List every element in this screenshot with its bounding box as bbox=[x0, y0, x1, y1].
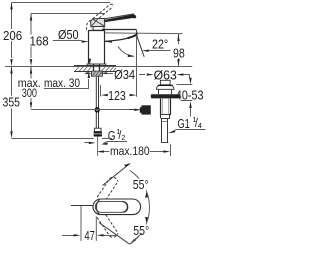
arc mid arrows bbox=[145, 191, 148, 198]
upper edge leader line bbox=[103, 163, 131, 185]
waste collar bbox=[161, 115, 170, 119]
Ø63 dim arrows bbox=[139, 74, 145, 76]
svg-text:G1: G1 bbox=[178, 116, 190, 131]
dim 168 line bbox=[30, 14, 32, 59]
dashed handle rotated down bbox=[97, 215, 118, 238]
Ø50 leader underline bbox=[53, 40, 82, 42]
faucet body bbox=[89, 30, 106, 64]
svg-text:40-53: 40-53 bbox=[176, 88, 204, 103]
mounting nut bbox=[91, 71, 102, 76]
spout top edge bbox=[102, 29, 136, 31]
hose line bbox=[31, 109, 135, 111]
22deg leader bbox=[148, 50, 171, 52]
svg-text:123: 123 bbox=[108, 88, 126, 103]
label G1/2 bbox=[108, 127, 126, 143]
threaded shank through deck bbox=[94, 64, 100, 76]
spout tip extension line bbox=[136, 36, 138, 97]
svg-text:168: 168 bbox=[30, 34, 49, 49]
label G1 1/4 bbox=[178, 115, 203, 131]
dim 98 line bbox=[178, 34, 180, 66]
lever knuckle bbox=[91, 18, 105, 26]
G1/2 fitting bbox=[94, 128, 102, 156]
rotation arc bbox=[130, 170, 150, 244]
pull rod boss bbox=[141, 105, 150, 114]
right extension for 47 bbox=[95, 216, 97, 241]
spout second line + 98 extension bbox=[105, 32, 183, 35]
svg-text:300: 300 bbox=[22, 86, 37, 100]
hose line arrow into waste bbox=[134, 109, 141, 111]
long bottom reference line bbox=[12, 138, 94, 140]
svg-text:206: 206 bbox=[3, 28, 22, 43]
G1/2 leader bbox=[103, 142, 127, 144]
dim 168 arrows bbox=[30, 14, 32, 21]
waste cap cup bbox=[156, 85, 174, 89]
svg-text:max. 30: max. 30 bbox=[44, 76, 80, 90]
Ø34 arrows bbox=[86, 72, 92, 74]
G1/2 thread arrows bbox=[85, 142, 90, 144]
left drop extension bbox=[80, 206, 82, 241]
upper arrowhead bbox=[124, 163, 130, 167]
left stub line bbox=[71, 205, 93, 207]
aerator dark tip bbox=[128, 35, 137, 38]
arrows outward bbox=[97, 150, 104, 152]
svg-text:G: G bbox=[108, 128, 116, 143]
supply rod bbox=[96, 76, 98, 128]
lever blade top edge bbox=[95, 14, 133, 20]
svg-text:47: 47 bbox=[84, 228, 95, 243]
white mask for labels on arc bbox=[131, 179, 150, 191]
dim 300 arrows bbox=[30, 67, 32, 74]
waste flange bbox=[151, 94, 181, 98]
svg-text:22°: 22° bbox=[152, 37, 168, 52]
dim 98 arrows bbox=[177, 34, 179, 41]
dim 40-53 arrows bbox=[189, 78, 191, 85]
svg-text:355: 355 bbox=[3, 95, 21, 110]
right extension (waste body wall) bbox=[170, 145, 172, 157]
svg-text:4: 4 bbox=[198, 121, 202, 130]
dim 206 line bbox=[11, 3, 13, 59]
waste neck bbox=[159, 89, 172, 94]
22deg arc bbox=[118, 46, 134, 56]
solid handle outer capsule bbox=[93, 199, 141, 215]
tailpipe bbox=[161, 118, 169, 142]
svg-text:Ø50: Ø50 bbox=[58, 27, 79, 42]
22deg diagonal bbox=[137, 35, 145, 57]
spout tip face bbox=[135, 29, 138, 35]
22deg arc arrowhead bbox=[128, 54, 135, 57]
dim 355 arrows bbox=[10, 67, 12, 74]
lever left cap bbox=[95, 20, 96, 23]
dashed handle rotated up bbox=[97, 177, 118, 200]
G1 1/4 leader bbox=[172, 130, 206, 133]
Ø50 arrows bbox=[82, 40, 89, 42]
waste plug knob bbox=[160, 80, 170, 85]
dim line bbox=[103, 151, 164, 153]
svg-text:Ø63: Ø63 bbox=[154, 68, 177, 83]
dashed raised lever bbox=[93, 4, 113, 21]
svg-text:98: 98 bbox=[173, 45, 185, 60]
deck hatching bbox=[75, 66, 116, 71]
waste body bbox=[160, 99, 171, 115]
solid handle inner capsule bbox=[95, 201, 127, 212]
flange bottom extension line bbox=[181, 100, 193, 102]
max30 leader underline bbox=[44, 79, 89, 89]
spout underside bbox=[105, 35, 137, 41]
svg-text:55°: 55° bbox=[133, 223, 149, 238]
cartridge neck bbox=[93, 27, 104, 31]
deck top line bbox=[5, 66, 192, 68]
svg-text:2: 2 bbox=[121, 133, 125, 142]
dim 168 extension line bbox=[31, 13, 105, 15]
svg-text:max.180: max.180 bbox=[110, 144, 150, 158]
base escutcheon bbox=[87, 64, 106, 66]
svg-text:Ø34: Ø34 bbox=[114, 67, 135, 82]
svg-text:55°: 55° bbox=[133, 177, 149, 192]
lower arc end arrowhead bbox=[130, 239, 136, 245]
dim 355 line bbox=[11, 67, 13, 131]
dim 206 arrows bbox=[10, 3, 12, 10]
max30 arrows bbox=[89, 59, 91, 66]
dim 47 arrows bbox=[62, 235, 75, 237]
junction dot bbox=[95, 107, 100, 112]
cap top extension line bbox=[177, 84, 193, 86]
deck section band bbox=[74, 66, 116, 72]
dim 300 line bbox=[30, 67, 32, 103]
dim 40-53 line bbox=[190, 75, 191, 117]
lever blade dark underside bbox=[97, 14, 136, 23]
dim 206 extension line bbox=[12, 2, 111, 4]
lower edge leader line bbox=[99, 223, 130, 245]
dashed lever swing arc bbox=[86, 20, 90, 30]
dim 123 arrows bbox=[101, 94, 108, 96]
